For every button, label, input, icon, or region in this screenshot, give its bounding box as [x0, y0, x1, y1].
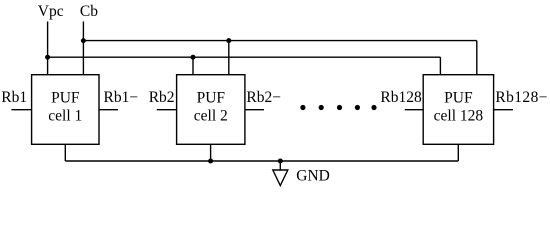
pin Rb1 stub [11, 109, 31, 111]
pin Rb128- stub [494, 109, 513, 111]
wire GND drop [279, 161, 281, 170]
wire cell 1 bottom drop [64, 144, 66, 161]
svg-text:Rb128: Rb128 [380, 89, 422, 106]
pin Rb1- stub [99, 109, 118, 111]
PUF cell 128 box [423, 75, 493, 145]
junction ground bus at GND [278, 159, 283, 164]
pin Rb128 stub [405, 109, 423, 111]
pin Rb2 stub [157, 109, 177, 111]
wire Cb drop to cell 2 [228, 41, 230, 75]
svg-text:cell 2: cell 2 [194, 108, 228, 125]
svg-text:Cb: Cb [80, 3, 98, 20]
svg-text:Rb1: Rb1 [1, 89, 27, 106]
wire Vpc vertical into cell 1 [47, 22, 49, 75]
junction Vpc bus at cell 2 drop [191, 55, 196, 60]
pin Rb2- stub [245, 109, 264, 111]
wire Cb drop to cell 128 [476, 41, 478, 75]
wire Cb vertical into cell 1 [82, 22, 84, 75]
PUF cell 1 box [32, 75, 99, 145]
wire Vpc horizontal bus [48, 56, 441, 58]
svg-text:Vpc: Vpc [38, 3, 64, 20]
junction Cb bus at cell 2 drop [226, 38, 231, 43]
svg-text:cell 1: cell 1 [48, 108, 82, 125]
svg-text:PUF: PUF [197, 90, 226, 107]
wire Cb horizontal bus [83, 40, 476, 42]
wire cell 2 bottom drop [210, 144, 212, 161]
svg-text:Rb2: Rb2 [149, 89, 175, 106]
wire ground bus [65, 160, 458, 162]
svg-text:cell 128: cell 128 [434, 108, 484, 125]
svg-text:Rb1−: Rb1− [104, 89, 139, 106]
junction on Vpc vertical [45, 55, 50, 60]
junction ground bus at cell 2 [208, 159, 213, 164]
wire cell 128 bottom drop [457, 144, 459, 161]
svg-text:Rb128−: Rb128− [495, 89, 547, 106]
ellipsis dots [300, 105, 376, 110]
svg-text:PUF: PUF [51, 90, 80, 107]
svg-text:GND: GND [296, 167, 330, 184]
ground symbol [273, 170, 288, 186]
svg-text:Rb2−: Rb2− [246, 89, 281, 106]
PUF cell 2 box [177, 75, 245, 145]
svg-text:PUF: PUF [444, 90, 473, 107]
wire Vpc drop to cell 2 [192, 57, 194, 74]
wire Vpc drop to cell 128 [439, 57, 441, 74]
junction on Cb vertical [81, 38, 86, 43]
